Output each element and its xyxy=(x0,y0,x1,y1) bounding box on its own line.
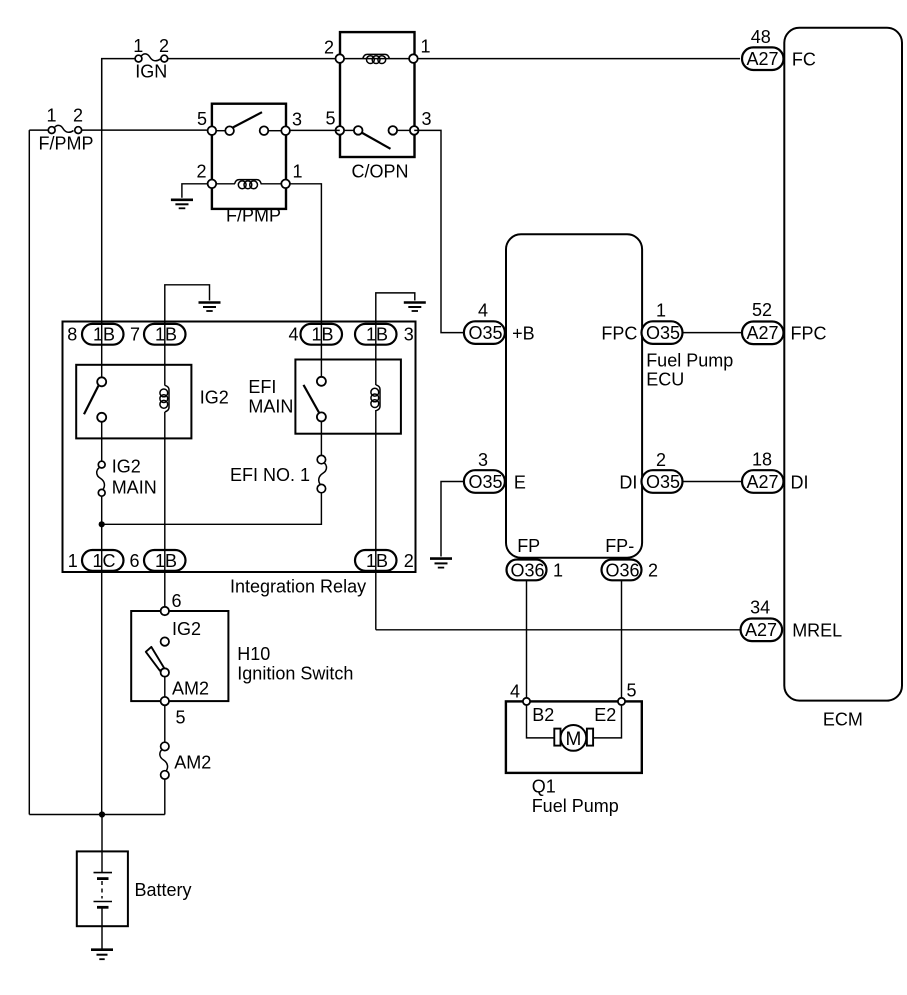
ignition switch H10 box xyxy=(131,611,353,701)
fuse AM2 xyxy=(160,742,211,779)
relay C/OPN pin 1 xyxy=(409,54,418,63)
svg-text:Fuel Pump: Fuel Pump xyxy=(532,796,619,816)
svg-text:1B: 1B xyxy=(366,325,388,345)
svg-text:3: 3 xyxy=(404,325,414,345)
wire E to ground xyxy=(441,482,464,557)
battery box xyxy=(77,851,192,926)
H10 pin 5 xyxy=(161,697,186,728)
svg-text:F/PMP: F/PMP xyxy=(39,134,94,154)
svg-text:4: 4 xyxy=(478,301,488,321)
ground at F/PMP relay xyxy=(171,200,193,209)
svg-text:Integration Relay: Integration Relay xyxy=(230,577,366,597)
svg-text:M: M xyxy=(565,729,581,750)
ECM box xyxy=(784,28,902,730)
svg-text:6: 6 xyxy=(129,551,139,571)
wire F/PMP pin2 to ground xyxy=(182,184,208,198)
svg-text:AM2: AM2 xyxy=(172,679,209,699)
svg-text:+B: +B xyxy=(512,324,535,344)
svg-text:5: 5 xyxy=(325,109,335,129)
svg-text:48: 48 xyxy=(751,27,771,47)
ground at integration relay oval 7 xyxy=(199,303,221,312)
wire oval7 ground stub xyxy=(165,285,210,325)
svg-text:5: 5 xyxy=(197,109,207,129)
svg-text:1B: 1B xyxy=(155,325,177,345)
svg-text:O35: O35 xyxy=(469,323,503,343)
svg-text:O36: O36 xyxy=(511,561,545,581)
connector oval 2 (1B) xyxy=(355,550,414,571)
svg-text:FPC: FPC xyxy=(601,324,637,344)
svg-text:5: 5 xyxy=(176,708,186,728)
ECU pin FPC oval O35 xyxy=(601,301,682,344)
svg-text:1: 1 xyxy=(133,36,143,56)
svg-text:IGN: IGN xyxy=(135,62,167,82)
svg-text:Ignition Switch: Ignition Switch xyxy=(237,664,353,684)
svg-text:1: 1 xyxy=(292,162,302,182)
relay IG2 coil xyxy=(160,385,169,412)
wire F/PMP row xyxy=(29,129,211,131)
svg-text:DI: DI xyxy=(791,473,809,493)
svg-text:1B: 1B xyxy=(366,551,388,571)
svg-text:1: 1 xyxy=(553,561,563,581)
svg-text:EFI: EFI xyxy=(248,377,276,397)
fuse EFI NO. 1 xyxy=(230,455,326,492)
svg-text:52: 52 xyxy=(752,300,772,320)
H10 pin 6 xyxy=(161,591,182,615)
wire EFI MAIN switch to fuse xyxy=(320,422,322,457)
svg-text:1: 1 xyxy=(420,37,430,57)
relay EFI MAIN switch xyxy=(304,377,326,422)
svg-text:1: 1 xyxy=(68,551,78,571)
wire DI link xyxy=(683,481,742,483)
junction dot xyxy=(99,521,105,527)
Q1 pin 4 xyxy=(510,682,530,706)
svg-text:2: 2 xyxy=(648,561,658,581)
H10 IG2 contact xyxy=(161,619,201,646)
wire oval3 ground stub xyxy=(376,293,415,325)
svg-text:MAIN: MAIN xyxy=(112,478,157,498)
svg-text:MREL: MREL xyxy=(792,621,842,641)
svg-text:2: 2 xyxy=(159,36,169,56)
ECM pin FPC oval A27 xyxy=(742,300,827,344)
svg-text:FP-: FP- xyxy=(605,536,634,556)
ECM pin FC oval A27 xyxy=(742,27,816,70)
svg-text:18: 18 xyxy=(752,450,772,470)
svg-text:MAIN: MAIN xyxy=(248,397,293,417)
wire far-left rail xyxy=(28,130,30,814)
svg-text:6: 6 xyxy=(172,591,182,611)
svg-text:FC: FC xyxy=(792,50,816,70)
svg-text:ECM: ECM xyxy=(823,710,863,730)
svg-text:FP: FP xyxy=(517,536,540,556)
svg-text:E2: E2 xyxy=(594,705,616,725)
wire left rail x=102 top xyxy=(101,59,103,378)
svg-text:1C: 1C xyxy=(93,551,116,571)
connector oval 6 (1B) xyxy=(129,550,185,571)
ECM pin MREL oval A27 xyxy=(741,598,843,642)
relay F/PMP box xyxy=(212,104,286,226)
svg-text:AM2: AM2 xyxy=(174,753,211,773)
svg-text:DI: DI xyxy=(619,473,637,493)
junction dot bottom xyxy=(99,811,105,817)
svg-text:34: 34 xyxy=(750,598,770,618)
relay C/OPN box xyxy=(340,32,415,181)
svg-text:1B: 1B xyxy=(93,325,115,345)
svg-text:A27: A27 xyxy=(747,323,779,343)
relay IG2 switch xyxy=(84,377,106,422)
svg-text:3: 3 xyxy=(478,450,488,470)
relay C/OPN pin 5 xyxy=(336,126,345,135)
fuse F/PMP xyxy=(39,106,94,154)
svg-text:1: 1 xyxy=(656,301,666,321)
wire EFI NO.1 fuse to junction xyxy=(102,492,322,524)
relay C/OPN coil xyxy=(324,37,431,64)
svg-text:1B: 1B xyxy=(155,551,177,571)
svg-text:IG2: IG2 xyxy=(172,619,201,639)
wire F/PMP pin1 down to oval4 xyxy=(290,184,322,377)
svg-text:F/PMP: F/PMP xyxy=(226,206,281,226)
connector oval 4 (1B) xyxy=(288,324,342,345)
relay IG2 box xyxy=(76,365,229,439)
svg-text:FPC: FPC xyxy=(791,324,827,344)
connector oval 7 (1B) xyxy=(130,324,186,345)
ground at integration relay oval 3 xyxy=(404,303,426,312)
Q1 motor wires xyxy=(527,705,622,738)
relay F/PMP pin 3 xyxy=(281,126,290,135)
Q1 pin 5 xyxy=(618,681,637,706)
relay F/PMP coil xyxy=(196,162,302,189)
H10 key blade xyxy=(146,647,164,671)
wire rail x=164.8 (oval7 - coil - oval6 - H10 - AM2 - junction) xyxy=(164,325,166,815)
svg-text:Q1: Q1 xyxy=(532,777,556,797)
svg-text:Fuel Pump: Fuel Pump xyxy=(646,351,733,371)
Q1 terminals B2 E2 xyxy=(532,705,616,725)
svg-text:2: 2 xyxy=(656,450,666,470)
ECM pin DI oval A27 xyxy=(742,450,809,493)
svg-text:8: 8 xyxy=(67,325,77,345)
connector oval 8 (1B) xyxy=(67,324,123,345)
svg-text:2: 2 xyxy=(73,106,83,126)
relay C/OPN pin 3 xyxy=(410,126,419,135)
Q1 motor M xyxy=(554,725,593,751)
ECU pin E oval O35 xyxy=(464,450,526,493)
svg-text:3: 3 xyxy=(292,110,302,130)
wire rail x=102 through relay xyxy=(101,422,103,815)
svg-text:IG2: IG2 xyxy=(200,388,229,408)
fuel pump ECU box xyxy=(506,234,733,557)
svg-text:7: 7 xyxy=(130,325,140,345)
H10 AM2 contact xyxy=(161,668,209,698)
ground at battery xyxy=(91,950,113,960)
relay F/PMP switch xyxy=(197,109,302,135)
svg-text:2: 2 xyxy=(196,162,206,182)
ECU pin +B oval O35 xyxy=(464,301,535,344)
svg-text:4: 4 xyxy=(288,325,298,345)
relay C/OPN switch xyxy=(325,109,431,149)
svg-text:A27: A27 xyxy=(747,49,779,69)
svg-text:1B: 1B xyxy=(312,325,334,345)
svg-text:O35: O35 xyxy=(469,472,503,492)
svg-text:2: 2 xyxy=(404,551,414,571)
svg-text:O35: O35 xyxy=(646,472,680,492)
relay F/PMP pin 2 xyxy=(208,180,217,189)
svg-text:E: E xyxy=(514,473,526,493)
fuel pump Q1 box xyxy=(506,701,642,816)
relay F/PMP pin 5 xyxy=(208,126,217,135)
ECU pin FP- oval O36 xyxy=(602,536,659,699)
relay F/PMP pin 1 xyxy=(281,180,290,189)
svg-text:5: 5 xyxy=(626,681,636,701)
svg-text:IG2: IG2 xyxy=(112,457,141,477)
svg-text:A27: A27 xyxy=(747,472,779,492)
wire C/OPN pin3 to +B xyxy=(414,130,464,332)
svg-text:3: 3 xyxy=(421,109,431,129)
wire IGN row from left corner to FC xyxy=(102,59,740,131)
svg-text:A27: A27 xyxy=(745,620,777,640)
svg-text:2: 2 xyxy=(324,38,334,58)
wire FPC link xyxy=(683,332,742,334)
relay C/OPN pin 2 xyxy=(336,54,345,63)
svg-text:EFI NO. 1: EFI NO. 1 xyxy=(230,465,310,485)
wire bottom junction row xyxy=(29,814,165,816)
svg-text:ECU: ECU xyxy=(646,370,684,390)
wire F/PMP pin3 to C/OPN pin5 xyxy=(286,129,340,131)
wire rail x=375.8 (oval3 - coil - oval2 - MREL) xyxy=(376,325,741,630)
ground at E xyxy=(430,559,452,568)
relay EFI MAIN coil xyxy=(371,385,380,411)
svg-text:B2: B2 xyxy=(532,705,554,725)
ECU pin FP oval O36 xyxy=(507,536,564,699)
integration relay box xyxy=(63,322,416,597)
fuse IG2 MAIN xyxy=(97,457,157,498)
svg-text:C/OPN: C/OPN xyxy=(352,162,409,182)
svg-text:O35: O35 xyxy=(646,323,680,343)
relay EFI MAIN box xyxy=(248,360,401,434)
svg-text:Battery: Battery xyxy=(135,880,192,900)
svg-text:O36: O36 xyxy=(606,561,640,581)
svg-text:1: 1 xyxy=(46,106,56,126)
fuse IGN xyxy=(133,36,169,82)
battery cell symbol xyxy=(94,815,113,949)
ECU pin DI oval O35 xyxy=(619,450,682,493)
connector oval 3 (1B) xyxy=(355,324,414,345)
svg-text:H10: H10 xyxy=(237,644,270,664)
svg-text:4: 4 xyxy=(510,682,520,702)
connector oval 1 (1C) xyxy=(68,550,124,571)
